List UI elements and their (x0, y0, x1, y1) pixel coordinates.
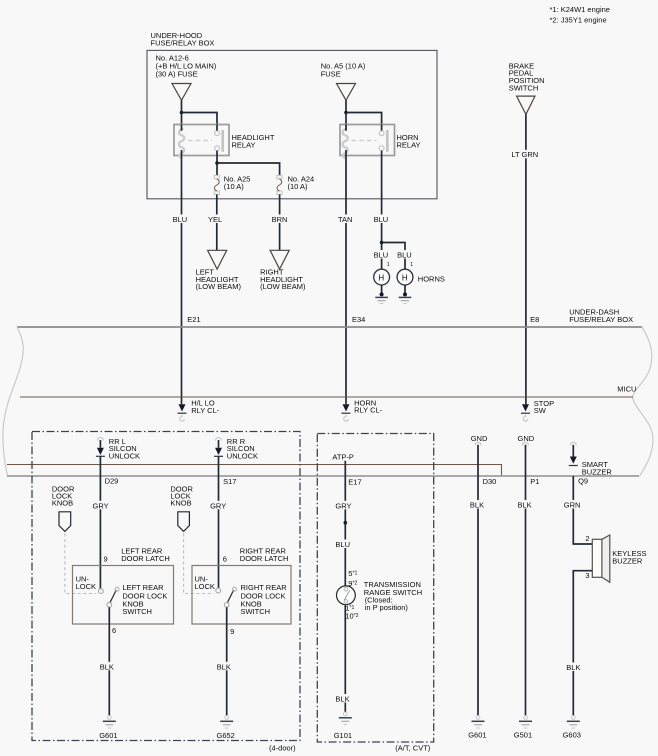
svg-text:(10 A): (10 A) (288, 182, 309, 191)
wire left latch to G601 (108, 607, 110, 715)
svg-text:E8: E8 (530, 315, 539, 324)
svg-text:H: H (402, 273, 408, 282)
svg-text:UNLOCK: UNLOCK (109, 452, 140, 461)
RR R SILCON UNLOCK label (227, 437, 258, 461)
ground G101 (334, 712, 352, 740)
horn 1 (373, 269, 391, 285)
right headlight symbol (270, 250, 289, 269)
svg-text:SWITCH: SWITCH (509, 83, 539, 92)
wire label BLU (ATP-P) (334, 540, 354, 550)
svg-text:BUZZER: BUZZER (582, 467, 613, 476)
UN-LOCK label right (195, 575, 215, 592)
dash-dot box 4-door (32, 432, 300, 741)
wire BRN fuse A24 to right headlight (279, 194, 281, 250)
svg-text:BLU: BLU (397, 250, 412, 259)
svg-text:9: 9 (104, 554, 108, 563)
svg-text:RELAY: RELAY (232, 141, 256, 150)
wire label BLK right latch (216, 662, 236, 672)
terminal RR R SILCON UNLOCK (214, 438, 223, 457)
terminal RR L SILCON UNLOCK (96, 438, 105, 457)
svg-text:BLU: BLU (335, 540, 350, 549)
transmission range switch label (364, 580, 422, 612)
svg-text:2: 2 (585, 534, 589, 543)
ground G601 left (99, 716, 117, 740)
wire branch to horn relay contact (346, 113, 382, 125)
svg-text:BUZZER: BUZZER (612, 556, 643, 565)
wire TAN horn relay coil to E34 and MICU (345, 156, 347, 405)
wire label BRN (271, 215, 290, 225)
svg-text:6: 6 (112, 626, 116, 635)
horn relay U2 (340, 125, 395, 158)
svg-text:TAN: TAN (338, 215, 352, 224)
splice GRY/BLU (344, 521, 348, 525)
under-dash box torn left edge (3, 327, 23, 476)
wire BLK to G101 (344, 605, 346, 712)
right headlight label (260, 268, 306, 291)
svg-text:GND: GND (518, 434, 535, 443)
node junction fuse branch (215, 161, 219, 165)
svg-text:SW: SW (534, 406, 547, 415)
terminal STOP SW (521, 404, 530, 421)
svg-text:1: 1 (410, 262, 413, 268)
wire LT GRN brake switch to E8 and MICU (525, 114, 527, 404)
svg-text:G601: G601 (468, 730, 486, 739)
wire from fuse A5 to horn relay coil (345, 100, 347, 124)
svg-text:G603: G603 (563, 730, 581, 739)
UN-LOCK label left (76, 575, 96, 592)
wire label GRN (563, 500, 584, 509)
svg-text:G501: G501 (514, 730, 532, 739)
svg-text:9: 9 (230, 627, 234, 636)
terminal H/L LO RLY CL- (178, 404, 187, 421)
svg-text:BLK: BLK (470, 500, 484, 509)
SMART BUZZER label (582, 460, 613, 477)
node junction A5 branch (344, 111, 348, 115)
MICU inner bus line (7, 465, 502, 476)
svg-text:LT GRN: LT GRN (511, 150, 538, 159)
svg-text:3: 3 (585, 571, 589, 580)
wire GRY D29 to left latch (99, 457, 101, 589)
under-hood fuse/relay box outline (147, 50, 437, 198)
svg-text:D29: D29 (105, 476, 119, 485)
wire label BLU horn 2 (396, 250, 415, 268)
svg-text:1: 1 (387, 262, 390, 268)
wire GND D30 to G601 (475, 442, 481, 715)
svg-text:DOOR LATCH: DOOR LATCH (121, 554, 170, 563)
svg-text:BLK: BLK (566, 663, 580, 672)
svg-text:ATP-P: ATP-P (332, 453, 354, 462)
svg-text:(10 A): (10 A) (224, 182, 245, 191)
svg-text:(A/T, CVT): (A/T, CVT) (395, 744, 431, 753)
wire branch to horn 2 (382, 243, 405, 270)
right rear door latch label (240, 546, 289, 563)
svg-text:KNOB: KNOB (52, 499, 73, 508)
wire label YEL (207, 215, 226, 225)
svg-text:H: H (379, 273, 385, 282)
svg-text:P1: P1 (530, 477, 539, 486)
svg-text:GRY: GRY (210, 502, 226, 511)
under-dash box top edge (17, 326, 642, 328)
svg-text:SWITCH: SWITCH (241, 607, 271, 616)
STOP SW label (534, 399, 554, 415)
node junction A12-6 branch (180, 111, 184, 115)
svg-text:GRY: GRY (93, 502, 109, 511)
svg-text:BLK: BLK (518, 500, 532, 509)
horn 2 (396, 269, 414, 285)
wire GRY S17 to right latch (218, 457, 220, 589)
wire label GRY (ATP-P) (334, 501, 353, 511)
svg-text:(LOW BEAM): (LOW BEAM) (196, 282, 242, 291)
svg-text:G101: G101 (334, 731, 352, 740)
wire BLU horn relay contact to horns (381, 156, 383, 270)
under-dash box torn right edge (633, 327, 653, 476)
wire BLU headlight coil to E21 and MICU (181, 156, 183, 405)
svg-text:*2: J35Y1 engine: *2: J35Y1 engine (550, 15, 607, 24)
wire label GRY (left) (91, 501, 110, 511)
svg-text:BLK: BLK (335, 694, 349, 703)
left headlight label (196, 268, 242, 291)
transmission range switch (337, 586, 356, 605)
left door lock knob switch (99, 587, 120, 607)
svg-text:G652: G652 (217, 731, 235, 740)
H/L LO RLY CL- label (191, 399, 220, 415)
svg-text:SWITCH: SWITCH (122, 607, 152, 616)
wire branch to fuse A24 (217, 163, 280, 175)
svg-text:Q9: Q9 (578, 477, 588, 486)
svg-text:E21: E21 (187, 315, 200, 324)
wire BLK keyless buzzer to G603 (573, 571, 592, 716)
ground under horn 1 (375, 285, 388, 304)
svg-text:LOCK: LOCK (195, 582, 215, 591)
headlight relay label (232, 133, 275, 150)
left door lock knob switch label (122, 583, 167, 616)
MICU bottom edge (7, 475, 639, 477)
svg-text:GRY: GRY (335, 502, 351, 511)
wire right latch to G652 (226, 607, 228, 715)
svg-text:(30 A) FUSE: (30 A) FUSE (156, 69, 198, 78)
svg-text:BLU: BLU (374, 250, 389, 259)
wire relay contact to fuses (216, 156, 218, 176)
svg-text:BLK: BLK (217, 662, 231, 671)
fuse A24 label (288, 174, 315, 191)
svg-text:DOOR LATCH: DOOR LATCH (240, 554, 289, 563)
door lock knob 1 label (52, 484, 75, 507)
wire label LT GRN (510, 150, 542, 159)
svg-text:GRN: GRN (564, 500, 581, 509)
ground G601 right (468, 716, 486, 740)
RR L SILCON UNLOCK label (109, 437, 140, 461)
svg-text:RLY CL-: RLY CL- (354, 406, 383, 415)
svg-text:6: 6 (223, 554, 227, 563)
brake pedal position switch label (509, 61, 545, 92)
svg-text:RLY CL-: RLY CL- (191, 406, 220, 415)
ground G652 (217, 716, 235, 740)
left rear door latch label (121, 546, 170, 563)
wire GRN Q9 to keyless buzzer (573, 476, 592, 544)
ground G603 (563, 716, 581, 740)
wire label BLU (horn) (373, 215, 393, 225)
svg-text:E17: E17 (348, 478, 361, 487)
under-hood fuse/relay box label (151, 31, 215, 48)
ground under horn 2 (399, 285, 412, 304)
fuse A12-6 (172, 84, 191, 101)
wire label BLK (buzzer) (565, 663, 585, 673)
door lock knob 1 symbol (59, 512, 71, 532)
svg-text:in P position): in P position) (365, 603, 409, 612)
svg-text:BRN: BRN (272, 215, 288, 224)
svg-text:(4-door): (4-door) (269, 744, 296, 753)
left headlight symbol (208, 250, 227, 269)
HORN RLY CL- label (354, 399, 383, 415)
horn relay label (397, 133, 421, 150)
svg-text:LOCK: LOCK (76, 582, 96, 591)
wire YEL fuse A25 to left headlight (216, 194, 218, 250)
svg-text:S17: S17 (223, 477, 236, 486)
door lock knob 1 linkage (65, 534, 96, 594)
svg-text:KNOB: KNOB (170, 499, 191, 508)
door lock knob 2 symbol (178, 512, 190, 532)
door lock knob 2 linkage (184, 534, 214, 594)
svg-text:G601: G601 (99, 731, 117, 740)
dash-dot box A/T CVT (317, 434, 433, 743)
pin 1/10 labels (344, 604, 359, 621)
fuse A5 label (321, 61, 366, 78)
under-dash fuse/relay box label (569, 308, 633, 325)
svg-text:MICU: MICU (617, 385, 636, 394)
svg-text:FUSE: FUSE (321, 69, 341, 78)
svg-text:FUSE/RELAY BOX: FUSE/RELAY BOX (569, 315, 633, 324)
svg-text:RELAY: RELAY (397, 141, 421, 150)
svg-text:(LOW BEAM): (LOW BEAM) (260, 282, 306, 291)
svg-text:*1: K24W1 engine: *1: K24W1 engine (550, 5, 610, 14)
wire label BLK left latch (99, 662, 119, 672)
svg-text:D30: D30 (483, 477, 497, 486)
svg-text:UNLOCK: UNLOCK (227, 452, 258, 461)
wire label GRY (right) (209, 501, 228, 511)
svg-text:FUSE/RELAY BOX: FUSE/RELAY BOX (151, 39, 215, 48)
wire label BLU horn 1 (373, 250, 392, 268)
svg-text:E34: E34 (352, 315, 365, 324)
door lock knob 2 label (170, 484, 193, 507)
fuse A24 (277, 175, 282, 194)
wire ATP-P E17 to transmission range switch (344, 461, 346, 586)
keyless buzzer label (612, 549, 646, 566)
brake pedal position switch symbol (517, 96, 535, 114)
right door lock knob switch label (241, 583, 288, 616)
left rear door latch box (73, 566, 174, 625)
fuse A12-6 label (156, 54, 217, 79)
wire label BLK (ATP-P) (334, 694, 354, 703)
headlight relay U1 (174, 125, 229, 158)
wire GND P1 to G501 (523, 442, 529, 715)
node junction horns (380, 241, 384, 245)
terminal SMART BUZZER (569, 442, 578, 465)
svg-text:BLU: BLU (374, 215, 389, 224)
MICU top line (20, 396, 633, 398)
wire label BLK (D30) (469, 500, 489, 509)
wire label BLU (headlight) (172, 215, 192, 225)
svg-text:YEL: YEL (208, 215, 222, 224)
wire label BLK (P1) (516, 500, 536, 509)
terminal HORN RLY CL- (342, 404, 351, 421)
svg-text:GND: GND (471, 434, 488, 443)
fuse A25 label (224, 174, 251, 191)
right rear door latch box (192, 566, 291, 625)
svg-text:HORNS: HORNS (418, 275, 445, 284)
fuse A25 (214, 175, 219, 194)
svg-text:BLK: BLK (100, 662, 114, 671)
wire branch to headlight relay contact (182, 113, 218, 125)
fuse A5 (337, 84, 356, 101)
pin 5/9 labels (348, 569, 357, 588)
wire label TAN (337, 215, 356, 225)
keyless buzzer symbol (592, 535, 610, 582)
svg-text:BLU: BLU (173, 215, 188, 224)
ground G501 (514, 716, 532, 740)
right door lock knob switch (216, 587, 237, 607)
wire from fuse A12-6 to headlight relay coil (181, 100, 183, 124)
